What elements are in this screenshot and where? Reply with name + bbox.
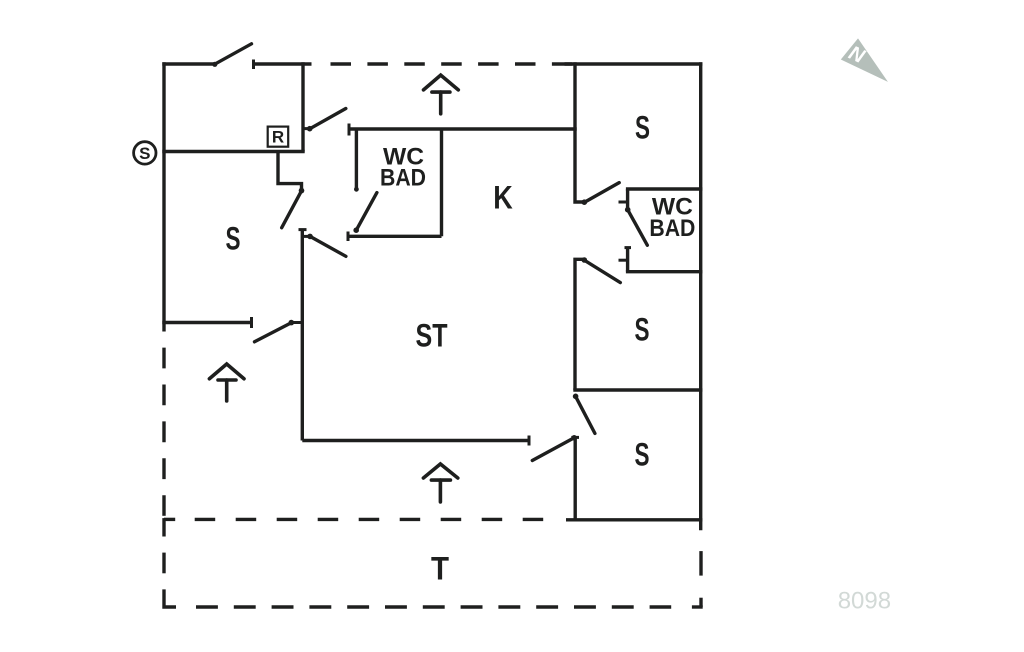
node: door jamb tick t1 [252,60,255,70]
wire: top wall left segment [162,62,214,65]
wire: dashed site boundary left [162,348,165,516]
node: K top wall left tick t2 [348,124,351,136]
node: ST wall top cap tick t9 [299,228,307,231]
wire: WC middle left wall [355,129,358,190]
svg-text:R: R [272,127,284,146]
door D4 leaf into ST [302,235,310,238]
wire: top-left room right wall [301,62,304,151]
node: jamb tick t4 [250,317,253,328]
wire: dashed site boundary top [331,62,576,65]
node: entrance arrow bottom [423,464,457,502]
svg-text:ST: ST [416,317,448,353]
svg-text:T: T [431,551,449,587]
svg-text:K: K [493,180,513,216]
node: vestibule jamb tick t6 [619,201,627,204]
node: cap tick on bottom-S wall top [571,436,579,439]
door D5 leaf left S room south door [291,321,302,324]
wire: dashed site boundary right [699,551,702,576]
wire: WC middle bottom wall [348,235,442,238]
door D1 top-left entrance leaf [215,44,252,65]
svg-text:S: S [635,109,650,145]
wire: top-left room bottom wall [162,150,304,153]
wire: right building top wall [565,62,703,65]
node: R box [268,127,289,147]
svg-text:BAD: BAD [649,215,695,242]
node: north arrow [841,38,888,82]
wire: right building right wall [699,62,702,530]
wire: dashed site boundary bottom [196,605,671,608]
door D2 leaf to hall [303,127,310,130]
node: entrance arrow left [209,364,244,401]
wire: bottom solid wall [566,518,702,521]
node: WC right wall resume cap t8 [625,246,632,249]
wire: ST bottom wall [302,439,529,442]
wire: right building left wall upper [575,62,585,202]
wire: dashed terrace line [195,518,545,521]
wire: WC right room bottom wall [626,270,703,273]
svg-text:BAD: BAD [380,165,426,192]
wire: K top wall [349,127,577,130]
wire: jog wall below R [278,152,302,191]
node: S circle [134,142,156,164]
door D3 left S room door leaf [299,188,305,194]
wire: left outer wall [162,62,165,331]
door D6 main entry leaf [571,435,577,441]
node: entrance arrow top [424,75,459,114]
node: vestibule jamb tick t7 [619,259,627,262]
wire: right building left wall middle [575,259,585,390]
wire: WC middle right wall [440,129,443,236]
svg-text:S: S [226,220,241,256]
wire: WC right room left wall upper [626,189,629,210]
svg-text:S: S [635,437,650,473]
door D8 WC middle leaf [353,227,359,233]
wire: bottom S room left wall [574,437,577,519]
svg-text:S: S [635,312,650,348]
door D7 top S room leaf [582,199,588,205]
door D9 WC right leaf [625,207,631,213]
svg-text:S: S [139,144,150,163]
wire: WC right room top wall [626,187,703,190]
door D10 middle S room leaf [582,257,588,263]
wire: top wall right segment [254,62,312,65]
node: WC bottom wall left tick t3 [347,232,350,242]
wire: WC right room left wall lower [626,248,629,272]
wire: left S room bottom wall [162,321,251,324]
wire: ST left wall [301,230,304,441]
node: jamb tick t5 [528,436,531,446]
wire: divider wall between S rooms [573,388,702,391]
door D11 bottom S room leaf [573,394,579,400]
svg-text:8098: 8098 [838,588,891,615]
